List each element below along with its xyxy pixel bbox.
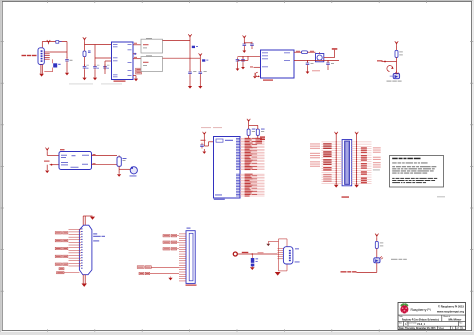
- svg-text:Mk Minor: Mk Minor: [449, 318, 462, 321]
- svg-text:Rev: Rev: [459, 322, 462, 324]
- svg-text:Raspberry Pi Zero (Reduced Sch: Raspberry Pi Zero (Reduced Schematics): [402, 318, 439, 321]
- svg-text:www.raspberrypi.org: www.raspberrypi.org: [436, 309, 464, 313]
- svg-text:Date: Thursday, November 26,: Date: Thursday, November 26, 2015: [399, 327, 436, 330]
- svg-text:of: of: [457, 327, 459, 330]
- svg-text:Sheet: Sheet: [439, 327, 445, 330]
- svg-text:© Raspberry Pi 2015: © Raspberry Pi 2015: [438, 305, 464, 309]
- svg-text:Size: Size: [399, 322, 402, 324]
- svg-text:Raspberry Pi: Raspberry Pi: [411, 308, 431, 312]
